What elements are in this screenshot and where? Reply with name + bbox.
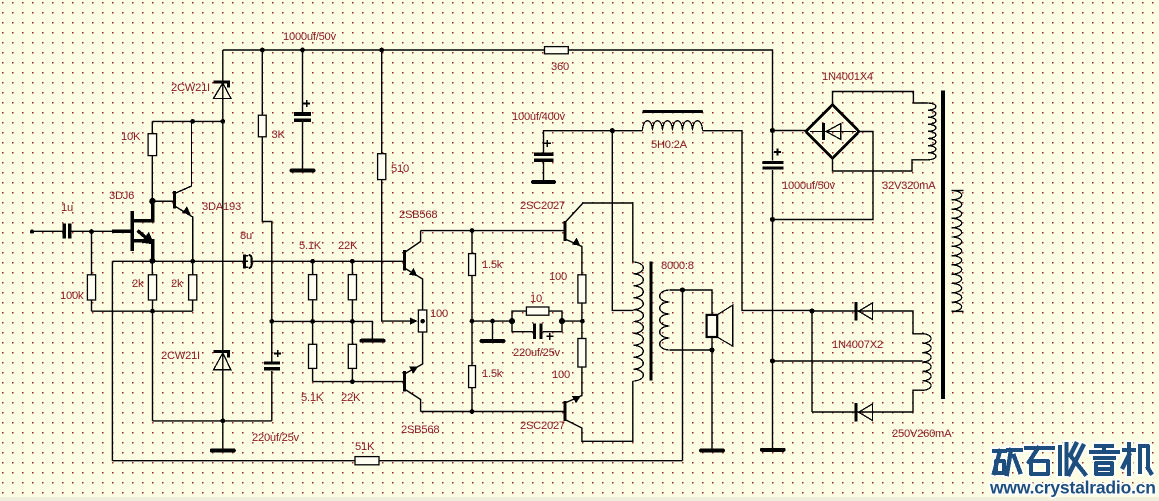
transistor Q2 2SB568 top base bar (403, 250, 406, 271)
resistor 1.5k bottom (469, 366, 476, 388)
wire bridge left corner lead (773, 130, 807, 132)
capacitor C 1000uf/50v left polarity plus (303, 100, 310, 107)
wire 220uf/25v left cap stem bottom (271, 371, 273, 421)
wire coupling rail y=261 left part to 8u cap (112, 260, 243, 262)
glyph shi (1026, 448, 1053, 474)
wire 220uf/25v right cap branch below nodes A-B (512, 321, 562, 332)
transformer T1 secondary winding (660, 290, 670, 350)
svg-text:2CW21I: 2CW21I (161, 350, 200, 362)
svg-text:www.crystalradio.cn: www.crystalradio.cn (989, 478, 1156, 498)
wire output secondary bottom to speaker (670, 338, 712, 351)
wire feedback bottom rail left of 51K (112, 460, 355, 462)
wire speaker ground stem (711, 350, 713, 449)
zener diode 2CW21I top cathode bar (213, 82, 230, 88)
transistor Q3 2SC2027 top emitter arrow (572, 238, 580, 246)
wire right vertical bus down to ground (772, 220, 774, 449)
svg-text:100uf/400v: 100uf/400v (512, 111, 566, 123)
svg-text:1.5k: 1.5k (482, 259, 503, 271)
potentiometer 100 wiper dot (420, 319, 425, 324)
wire B+ top rail to right vertical (223, 50, 773, 131)
transistor V2 3DA193 emitter arrow (182, 206, 190, 214)
transistor Q3 2SC2027 top base bar (564, 221, 567, 241)
transistor Q4 2SB568 bottom emitter arrow (409, 367, 418, 374)
wire bottom node rail y=421 with ground tap (153, 420, 272, 422)
diode D1 1N4007 top bar (854, 302, 857, 320)
resistor 360 (545, 47, 569, 54)
svg-text:22K: 22K (338, 240, 358, 252)
zener diode 2CW21I top triangle (214, 83, 231, 98)
resistor 5.1K top (309, 275, 317, 300)
inductor L1 choke 5H0.2A winding (643, 121, 703, 131)
wire feedback vertical up to speaker node (682, 290, 684, 461)
transistor V1 3DJ6 gate bar (131, 211, 135, 251)
transformer T2 power core bar (941, 91, 945, 400)
transistor V2 3DA193 collector lead (175, 121, 192, 193)
wire 1000uf/50v left cap bottom to ground (302, 122, 304, 169)
ground G7 below right bus (762, 448, 784, 452)
wire right 2k top lead (192, 261, 194, 275)
capacitor C 1000uf/50v left plates (294, 112, 311, 122)
svg-text:5.1K: 5.1K (299, 240, 322, 252)
resistor 2k left (148, 275, 156, 300)
wire lower driver rail y=411.5 (421, 411, 565, 413)
capacitor C 220uf/25v left polarity plus (274, 350, 281, 357)
svg-text:250V260mA: 250V260mA (892, 428, 952, 440)
ground G6 below speaker (701, 449, 723, 453)
wire rectifier rail to diode D2 via left vertical (811, 311, 813, 412)
wire bridge top corner to 32V winding top (833, 92, 928, 105)
resistor 2k right (189, 275, 197, 300)
capacitor C 220uf/25v right polarity plus (546, 333, 553, 340)
transistor Q2 2SB568 top emitter arrow (409, 268, 417, 276)
resistor 3K (258, 115, 266, 137)
svg-text:220uf/25v: 220uf/25v (252, 432, 300, 444)
svg-text:1000uf/50v: 1000uf/50v (283, 31, 337, 43)
wire feedback bottom rail right of 51K (379, 460, 683, 462)
diode D1 1N4007 top triangle (859, 303, 873, 319)
transistor V1 3DJ6 source lead (134, 241, 153, 261)
svg-text:10K: 10K (121, 131, 141, 143)
wire top zener branch from B+ rail (222, 50, 224, 121)
svg-text:51K: 51K (355, 441, 375, 453)
transformer T1 8000:8 core bar (649, 262, 652, 381)
glyph shou (1060, 444, 1085, 474)
wire bridge right corner to cap bottom node (773, 132, 874, 220)
resistor 100 top (578, 275, 586, 303)
wire lower base rail y=381.6 (313, 381, 405, 383)
transistor Q5 2SC2027 bottom collector lead (565, 381, 633, 441)
ground G1 below 1000uf/50v left (292, 169, 314, 173)
watermark crystalradio logo (994, 444, 1151, 474)
transistor Q3 2SC2027 top emitter lead (565, 239, 582, 275)
wire left 2k bottom lead (152, 300, 154, 311)
wire ground B stem (492, 321, 494, 339)
svg-text:100: 100 (549, 271, 567, 283)
capacitor C 100uf/400v plates (534, 153, 553, 163)
wire 3K top branch (261, 50, 263, 115)
wire 10K bottom lead to drain node (151, 156, 153, 202)
ground G2 below 100uf/400v (533, 180, 554, 184)
resistor 51K (355, 457, 379, 465)
resistor 5.1K bottom (309, 344, 317, 368)
transistor Q5 2SC2027 bottom emitter arrow (572, 396, 581, 403)
wire output secondary top to speaker (670, 290, 712, 316)
capacitor C 1000uf/50v right plates (763, 161, 784, 170)
wire 510 bottom down to pot wiper line (382, 180, 412, 322)
wire choke left lead (612, 130, 642, 132)
transistor Q4 2SB568 bottom base bar (403, 371, 406, 392)
capacitor 8u coupling (244, 255, 251, 269)
wire mid rail y=321 from 1.5k node to node A (472, 320, 512, 322)
svg-text:2SC2027: 2SC2027 (520, 420, 565, 432)
transformer T2 32V winding (928, 103, 936, 160)
wire 3K bottom jog down to mid rail node (262, 137, 272, 362)
wire 1.5k top resistor leads (471, 231, 473, 322)
svg-text:100: 100 (430, 308, 448, 320)
node drain junction dot (149, 198, 155, 204)
zener diode 2CW21I bottom cathode bar (213, 352, 230, 358)
transistor Q4 2SB568 bottom collector lead to lower rail (405, 389, 421, 412)
node source junction dot (149, 258, 155, 264)
transistor Q4 2SB568 bottom emitter lead from pot bottom (405, 332, 423, 374)
transistor V2 3DA193 base bar (173, 191, 176, 209)
resistor 1.5k top (469, 254, 476, 276)
input terminal (30, 229, 34, 233)
capacitor C 220uf/25v right plates (533, 323, 543, 339)
wire mains winding bottom stub (952, 310, 964, 312)
wire 100uf/400v cap bottom to ground (543, 162, 545, 181)
wire ground stem below bottom zener node (222, 421, 224, 449)
capacitor 1u input (63, 223, 72, 238)
wire coupling rail y=261 right part to PNP base (252, 260, 405, 262)
svg-text:32V320mA: 32V320mA (882, 180, 936, 192)
svg-text:220uf/25v: 220uf/25v (513, 347, 561, 359)
transistor V1 3DJ6 drain lead (134, 201, 153, 221)
svg-text:5.1K: 5.1K (301, 392, 324, 404)
wire diode D2 row y=412 (812, 390, 923, 412)
wire 1.5k bottom resistor leads (471, 321, 473, 411)
svg-text:8000:8: 8000:8 (661, 260, 694, 272)
svg-text:8u: 8u (240, 230, 252, 242)
transistor V2 3DA193 emitter lead (175, 206, 193, 261)
wire 250V winding center tap (773, 360, 923, 362)
svg-text:22K: 22K (341, 392, 361, 404)
wire node B to emitter node (562, 320, 582, 322)
wire 220uf/25v left cap stem top (271, 321, 273, 361)
svg-text:510: 510 (391, 163, 409, 175)
wire input terminal to 1u cap (32, 230, 63, 232)
svg-text:360: 360 (551, 61, 569, 73)
capacitor C 100uf/400v polarity plus (544, 140, 551, 147)
wire right vertical cap bus dot131 to dot219 (772, 131, 774, 220)
glyph kuang (994, 450, 1021, 474)
glyph yin (1091, 446, 1118, 474)
svg-text:1u: 1u (61, 202, 73, 214)
transistor Q5 2SC2027 bottom base bar (564, 401, 567, 421)
wire tail rail y=311 (92, 310, 193, 312)
wire 100k top lead from gate node (91, 232, 93, 275)
ground G3 below 22K junction (362, 339, 384, 343)
transistor Q2 2SB568 top collector lead to driver rail (405, 231, 421, 253)
resistor 22K bottom (348, 344, 356, 368)
svg-text:2SB568: 2SB568 (399, 209, 437, 221)
ground G5 below bottom zener (212, 449, 234, 453)
transformer T2 mains winding (952, 191, 962, 312)
wire bridge bottom corner to 32V winding bottom (833, 159, 928, 172)
wire 22K bottom resistor leads (351, 321, 353, 381)
zener diode 2CW21I bottom triangle (214, 353, 231, 370)
svg-text:2SC2027: 2SC2027 (520, 200, 565, 212)
diode D2 1N4007 bottom triangle (859, 404, 873, 420)
bridge rectifier inner diode bar (822, 123, 825, 140)
resistor 10 (526, 307, 549, 315)
wire 100 bottom resistor top lead (581, 321, 583, 338)
wire 510 top branch (381, 50, 383, 154)
wire mains winding top stub (952, 190, 964, 192)
svg-text:5H0.2A: 5H0.2A (651, 139, 688, 151)
svg-text:100k: 100k (60, 290, 84, 302)
capacitor C 1000uf/50v right polarity plus (774, 149, 781, 156)
svg-text:2k: 2k (132, 278, 144, 290)
inductor L1 choke 5H0.2A core bar (644, 110, 702, 113)
wire right 2k bottom lead (192, 300, 194, 311)
wire 100uf/400v cap top to choke junction (544, 131, 613, 153)
wire driver rail y=230.6 (421, 230, 565, 232)
wire 10 ohm branch over nodes A-B (512, 311, 562, 321)
resistor 22K top (348, 275, 356, 300)
wire diode D1 row y=311 (812, 311, 923, 334)
wire 100 top resistor bottom lead (581, 303, 583, 321)
potentiometer 100 body (418, 310, 426, 332)
transistor V2 3DA193 base lead (154, 200, 175, 202)
transistor Q2 2SB568 top emitter lead to pot top (405, 268, 423, 310)
resistor 100 bottom (578, 339, 586, 368)
transistor Q5 2SC2027 bottom emitter lead (565, 367, 582, 403)
resistor 10K (148, 134, 157, 156)
svg-text:3DJ6: 3DJ6 (109, 190, 134, 202)
wire 1u cap to gate node (71, 230, 112, 232)
svg-text:2CW21I: 2CW21I (171, 82, 210, 94)
transformer T2 250V winding (923, 334, 932, 390)
wire collector rail y=121 (10K top to zener bottom) (152, 120, 223, 122)
bridge rectifier 1N4001X4 diamond (806, 105, 859, 159)
speaker LS1 driver (707, 315, 718, 337)
bridge rectifier inner lead line (810, 131, 856, 133)
svg-text:2SB568: 2SB568 (401, 424, 439, 436)
svg-text:3K: 3K (272, 129, 286, 141)
svg-text:10: 10 (530, 293, 542, 305)
svg-text:1N4001X4: 1N4001X4 (822, 71, 873, 83)
wire choke junction down to output transformer center tap (612, 131, 633, 311)
wire 1000uf/50v left cap top branch (302, 50, 304, 112)
wire zener chain vertical to bottom zener (222, 121, 224, 421)
transistor V1 3DJ6 source arrow (138, 231, 147, 238)
svg-text:1.5k: 1.5k (482, 368, 503, 380)
svg-text:2k: 2k (171, 278, 183, 290)
transformer T1 primary winding (633, 262, 643, 381)
svg-text:100: 100 (552, 369, 570, 381)
transistor Q3 2SC2027 top collector lead (565, 203, 633, 262)
wire 22K top resistor leads (351, 261, 353, 321)
capacitor C 220uf/25v left plates (264, 361, 280, 370)
svg-text:3DA193: 3DA193 (202, 201, 241, 213)
wire left 2k top lead from source node (151, 261, 153, 275)
wire 5.1K top resistor leads (312, 261, 314, 321)
bridge rectifier inner diode triangle (826, 124, 841, 140)
transistor V1 3DJ6 gate lead (112, 230, 132, 234)
wire choke right lead down to rectifier rail (703, 131, 813, 311)
wire tail down from rail to bottom rail (152, 311, 154, 421)
svg-text:1N4007X2: 1N4007X2 (832, 339, 883, 351)
speaker LS1 horn (717, 305, 733, 346)
wire 5.1K bottom resistor leads (312, 321, 314, 381)
wire mid rail y=321 to ground A (272, 321, 373, 338)
wire feedback left vertical (111, 261, 113, 460)
potentiometer 100 wiper arrow (410, 318, 417, 325)
wire 10K top lead (151, 121, 153, 133)
wire 100k bottom lead to tail rail (91, 300, 93, 311)
svg-text:1000uf/50v: 1000uf/50v (782, 180, 836, 192)
ground G4 mid amplifier (482, 339, 504, 343)
glyph ji (1123, 444, 1151, 474)
resistor 100k (87, 275, 95, 300)
resistor 510 (378, 154, 386, 180)
diode D2 1N4007 bottom bar (854, 403, 857, 421)
